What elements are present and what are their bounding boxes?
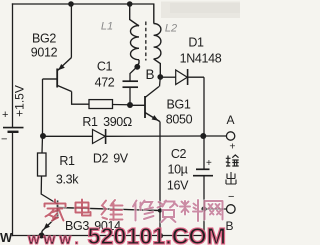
svg-text:www.: www. <box>27 231 83 245</box>
node B dot <box>134 64 140 70</box>
transistor BG2 emitter arrow <box>58 64 65 70</box>
wire BG2 base down to node <box>42 79 44 136</box>
svg-text:−: − <box>1 134 7 146</box>
wire BG2 collector down <box>72 92 89 105</box>
junction dot L2/D1/BG1 <box>157 74 163 80</box>
svg-text:+: + <box>2 109 8 121</box>
watermark char ZI <box>158 201 178 223</box>
battery GB 1.5V <box>3 128 24 132</box>
scan smudge top right <box>161 2 240 19</box>
wire to terminal B <box>204 208 226 210</box>
svg-text:B: B <box>145 67 154 82</box>
inductor L1 <box>130 4 139 67</box>
svg-text:3.3k: 3.3k <box>56 173 79 187</box>
terminal A circle <box>226 132 234 140</box>
svg-text:472: 472 <box>95 76 115 90</box>
junction dot BG3 emitter / rail <box>39 233 45 239</box>
wire top rail <box>13 3 154 5</box>
svg-text:9012: 9012 <box>31 46 58 60</box>
svg-text:W: W <box>0 230 13 245</box>
svg-text:D1: D1 <box>188 36 204 50</box>
resistor R1 390ohm <box>89 100 113 109</box>
wire BG2 emitter to top rail <box>70 4 72 58</box>
wire BG1 collector up <box>159 77 162 87</box>
svg-text:+1.5V: +1.5V <box>13 85 27 117</box>
transistor BG2 9012 <box>43 58 72 92</box>
transformer core dashed <box>145 22 147 61</box>
transistor BG1 emitter arrow <box>152 115 159 121</box>
transistor BG1 8050 <box>130 87 160 122</box>
svg-text:R1: R1 <box>82 115 98 129</box>
resistor R1 3.3k <box>38 153 47 176</box>
wire left rail lower <box>12 132 14 235</box>
svg-text:+: + <box>206 158 212 169</box>
svg-text:L1: L1 <box>101 21 113 33</box>
diode D2 9V zener <box>43 129 203 144</box>
junction dot top rail / BG2 <box>68 1 74 7</box>
wire R1 3.3k down <box>41 176 57 204</box>
label output chinese CHU <box>226 172 236 184</box>
wire node to R1 3.3k <box>41 136 44 153</box>
svg-text:10µ: 10µ <box>167 163 187 177</box>
svg-text:9V: 9V <box>113 152 129 166</box>
svg-text:C2: C2 <box>171 147 187 161</box>
junction dot top rail / L1 <box>127 1 133 7</box>
terminal B circle <box>227 205 236 214</box>
wire BG1 emitter down <box>159 122 161 236</box>
junction dot BG1 emitter / rail <box>157 233 163 239</box>
watermark char LIAO <box>180 200 202 221</box>
watermark char WEI <box>102 200 123 220</box>
svg-text:B: B <box>225 219 233 233</box>
svg-text:A: A <box>226 113 234 127</box>
svg-text:BG1: BG1 <box>167 98 191 112</box>
junction dot D2 node <box>40 133 46 139</box>
wire left rail upper <box>12 4 14 127</box>
wire C1 bottom to node <box>129 87 131 105</box>
wire to terminal A <box>203 135 226 137</box>
svg-text:8050: 8050 <box>166 113 193 127</box>
svg-text:520101.COM: 520101.COM <box>88 223 227 245</box>
capacitor C1 472 <box>123 81 139 87</box>
inductor L2 <box>154 4 161 77</box>
diode D1 1N4148 <box>160 69 204 85</box>
svg-text:D2: D2 <box>93 152 109 166</box>
svg-text:R1: R1 <box>59 154 75 168</box>
svg-text:+: + <box>229 141 235 153</box>
watermark char XIU <box>133 201 154 221</box>
watermark char DIAN <box>76 200 91 216</box>
svg-text:C1: C1 <box>97 60 113 74</box>
junction dot BG3 collector / BG1 emitter <box>158 208 162 212</box>
transistor BG3 9014 <box>42 201 160 236</box>
svg-text:−: − <box>228 191 234 203</box>
label output chinese SHU <box>226 155 239 166</box>
capacitor C2 10u 16V <box>193 169 213 175</box>
svg-text:L2: L2 <box>165 23 177 35</box>
wire R1 right to node <box>113 104 131 106</box>
svg-text:1N4148: 1N4148 <box>180 52 222 66</box>
svg-text:BG2: BG2 <box>32 32 56 46</box>
svg-text:16V: 16V <box>167 179 189 193</box>
watermark char JIA <box>45 200 66 221</box>
wire output column <box>203 77 205 235</box>
junction dot output/A <box>200 133 206 139</box>
svg-text:390Ω: 390Ω <box>103 115 132 129</box>
wire bottom rail <box>13 235 205 237</box>
watermark char WANG <box>205 201 223 220</box>
junction dot C1/R1/BG1 base <box>127 102 133 108</box>
wire node B to C1 <box>130 67 137 81</box>
transistor BG3 emitter arrow <box>44 223 50 229</box>
junction dot output/B <box>201 206 206 211</box>
